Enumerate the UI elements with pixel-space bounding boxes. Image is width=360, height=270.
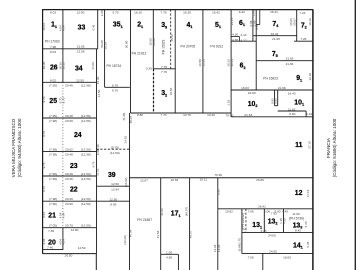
svg-text:(12.50): (12.50): [81, 197, 91, 201]
svg-text:6.90: 6.90: [217, 189, 221, 195]
svg-text:2.60: 2.60: [100, 10, 104, 16]
svg-text:11.82: 11.82: [288, 107, 296, 111]
svg-text:5.90: 5.90: [274, 209, 280, 213]
svg-text:4.10: 4.10: [240, 33, 246, 37]
svg-text:8.42: 8.42: [295, 228, 301, 232]
svg-text:18.00: 18.00: [283, 256, 291, 260]
svg-text:(7.96): (7.96): [49, 177, 57, 181]
svg-text:14.04: 14.04: [217, 244, 221, 252]
svg-text:8.02: 8.02: [50, 78, 56, 82]
svg-text:9.76: 9.76: [92, 161, 96, 167]
svg-text:10.50: 10.50: [202, 59, 206, 67]
svg-text:PH 15929: PH 15929: [161, 40, 165, 55]
svg-text:10.40: 10.40: [207, 113, 215, 117]
svg-text:(9.70): (9.70): [111, 145, 119, 149]
svg-text:15.50: 15.50: [170, 34, 174, 42]
svg-text:1.75: 1.75: [237, 238, 241, 244]
svg-text:4.04: 4.04: [62, 25, 66, 31]
svg-text:31.02: 31.02: [160, 208, 164, 216]
svg-text:4.12: 4.12: [240, 38, 246, 42]
svg-text:1.18: 1.18: [226, 100, 230, 106]
svg-text:5.35: 5.35: [306, 241, 310, 247]
svg-text:16.30: 16.30: [96, 76, 100, 84]
svg-text:24.05: 24.05: [269, 249, 277, 253]
svg-text:9.70: 9.70: [112, 10, 118, 14]
svg-text:7.50: 7.50: [248, 256, 254, 260]
svg-text:12.56: 12.56: [77, 45, 85, 49]
svg-text:17.18: 17.18: [306, 189, 310, 197]
svg-text:20.36: 20.36: [65, 172, 73, 176]
svg-text:14.52: 14.52: [123, 136, 127, 144]
svg-text:3.35: 3.35: [260, 229, 266, 233]
svg-text:8.42: 8.42: [239, 10, 245, 14]
svg-text:4.30: 4.30: [232, 33, 238, 37]
svg-text:21.63: 21.63: [244, 113, 252, 117]
svg-text:6.46: 6.46: [92, 24, 96, 30]
svg-text:20.36: 20.36: [65, 177, 73, 181]
svg-text:(Código: 94400) Altura: 1000: (Código: 94400) Altura: 1000: [17, 118, 22, 177]
svg-text:5.35: 5.35: [304, 221, 308, 227]
svg-text:12.30: 12.30: [308, 73, 312, 81]
svg-text:16.63: 16.63: [241, 86, 249, 90]
svg-text:8.03: 8.03: [50, 10, 56, 14]
svg-text:33: 33: [78, 25, 86, 32]
svg-text:8.80: 8.80: [137, 113, 143, 117]
svg-text:34: 34: [75, 65, 83, 72]
svg-text:(PH 14012): (PH 14012): [241, 213, 245, 230]
svg-text:50.90: 50.90: [125, 40, 129, 48]
svg-text:(12.56): (12.56): [81, 114, 91, 118]
svg-text:4.04: 4.04: [62, 212, 66, 218]
svg-text:25: 25: [49, 98, 57, 105]
svg-text:16.42: 16.42: [271, 32, 279, 36]
svg-text:18.30: 18.30: [42, 61, 46, 69]
svg-text:16.39: 16.39: [183, 10, 191, 14]
svg-text:PH 9212: PH 9212: [210, 45, 223, 49]
svg-text:12.50: 12.50: [111, 182, 119, 186]
svg-text:23.50: 23.50: [152, 38, 156, 46]
svg-text:(7.98): (7.98): [49, 119, 57, 123]
svg-text:11.90: 11.90: [292, 212, 300, 216]
svg-text:(26.02): (26.02): [124, 177, 128, 187]
svg-text:(7.96): (7.96): [49, 172, 57, 176]
svg-text:23.16: 23.16: [230, 17, 234, 25]
svg-text:22: 22: [70, 186, 78, 193]
svg-text:(7.98): (7.98): [49, 148, 57, 152]
svg-text:9.76: 9.76: [42, 131, 46, 137]
svg-text:7.26: 7.26: [300, 37, 306, 41]
svg-text:20.56: 20.56: [65, 202, 73, 206]
svg-text:8.96: 8.96: [110, 203, 116, 207]
svg-text:9.64: 9.64: [42, 238, 46, 244]
svg-text:(12.50): (12.50): [81, 172, 91, 176]
svg-text:20.66: 20.66: [65, 119, 73, 123]
svg-text:7.70: 7.70: [160, 113, 166, 117]
svg-text:16.41: 16.41: [258, 205, 266, 209]
svg-text:50.98: 50.98: [100, 40, 104, 48]
svg-text:26.80: 26.80: [256, 178, 264, 182]
svg-text:20.50: 20.50: [65, 254, 73, 258]
svg-text:7.06: 7.06: [248, 210, 254, 214]
svg-text:0.82: 0.82: [274, 98, 278, 104]
svg-text:20.62: 20.62: [65, 148, 73, 152]
svg-text:9.64: 9.64: [42, 212, 46, 218]
svg-text:7.76: 7.76: [160, 10, 166, 14]
svg-text:12.94: 12.94: [111, 187, 119, 191]
svg-text:12.50: 12.50: [78, 246, 86, 250]
svg-text:9.76: 9.76: [42, 186, 46, 192]
svg-text:4.38: 4.38: [232, 38, 238, 42]
svg-text:31.02: 31.02: [95, 168, 99, 176]
svg-text:4.26: 4.26: [282, 218, 286, 224]
svg-text:6.76: 6.76: [112, 83, 118, 87]
svg-text:(PH 5730): (PH 5730): [289, 217, 304, 221]
svg-text:16.42: 16.42: [212, 10, 220, 14]
svg-text:PH 21912: PH 21912: [132, 52, 147, 56]
svg-text:18.50: 18.50: [169, 87, 173, 95]
svg-text:8.03: 8.03: [50, 50, 56, 54]
svg-text:9.76: 9.76: [42, 162, 46, 168]
svg-text:7.24: 7.24: [299, 11, 305, 15]
svg-text:16.64: 16.64: [42, 23, 46, 31]
svg-text:9.70: 9.70: [62, 97, 66, 103]
svg-text:20.70: 20.70: [65, 224, 73, 228]
svg-text:12.50: 12.50: [76, 78, 84, 82]
svg-text:21.65: 21.65: [272, 37, 280, 41]
svg-text:1.10: 1.10: [306, 112, 312, 116]
svg-text:(12.50): (12.50): [81, 148, 91, 152]
svg-text:40.08: 40.08: [129, 229, 133, 237]
svg-text:16.16: 16.16: [134, 10, 142, 14]
svg-text:21: 21: [48, 213, 56, 220]
svg-text:12.50: 12.50: [77, 10, 85, 14]
svg-text:10.82: 10.82: [225, 210, 233, 214]
svg-text:1.00: 1.00: [166, 251, 172, 255]
svg-text:12.56: 12.56: [77, 50, 85, 54]
svg-text:(12.50): (12.50): [110, 151, 120, 155]
svg-text:4.40: 4.40: [282, 209, 288, 213]
svg-text:(9.84): (9.84): [237, 244, 241, 252]
svg-text:2.90: 2.90: [96, 149, 100, 155]
svg-text:45.07: 45.07: [129, 116, 133, 124]
svg-text:PH 17063: PH 17063: [45, 39, 60, 43]
svg-text:14.50: 14.50: [97, 89, 101, 97]
svg-text:21.65: 21.65: [286, 57, 294, 61]
svg-text:20.36: 20.36: [65, 197, 73, 201]
svg-text:9.70: 9.70: [42, 96, 46, 102]
svg-text:(12.56): (12.56): [81, 83, 91, 87]
svg-text:(7.05): (7.05): [49, 224, 57, 228]
svg-text:(36.20): (36.20): [123, 235, 127, 245]
svg-text:9.60: 9.60: [289, 112, 295, 116]
svg-text:39: 39: [108, 172, 116, 179]
svg-text:12: 12: [295, 190, 303, 197]
svg-text:17.00: 17.00: [91, 62, 95, 70]
svg-text:27.18: 27.18: [308, 141, 312, 149]
svg-text:11: 11: [295, 142, 302, 149]
svg-text:20.46: 20.46: [65, 114, 73, 118]
svg-text:PH 16923: PH 16923: [263, 77, 278, 81]
svg-text:FRANCIA: FRANCIA: [326, 137, 331, 158]
svg-text:(12.56): (12.56): [81, 202, 91, 206]
svg-text:(7.98): (7.98): [49, 197, 57, 201]
svg-text:16.30: 16.30: [104, 42, 108, 50]
svg-text:(7.98): (7.98): [49, 153, 57, 157]
svg-text:7.76: 7.76: [161, 65, 167, 69]
svg-text:12.50: 12.50: [109, 197, 117, 201]
svg-text:30.14: 30.14: [230, 59, 234, 67]
svg-text:5.06: 5.06: [264, 209, 270, 213]
svg-text:(12.56): (12.56): [81, 119, 91, 123]
svg-text:16.43: 16.43: [288, 91, 296, 95]
svg-text:7.65: 7.65: [48, 229, 54, 233]
svg-text:10.63: 10.63: [171, 178, 179, 182]
svg-text:PH 21587: PH 21587: [137, 218, 152, 222]
svg-text:10.76: 10.76: [183, 113, 191, 117]
svg-text:70.90: 70.90: [226, 113, 234, 117]
svg-text:18.12: 18.12: [62, 62, 66, 70]
svg-text:(45.07): (45.07): [185, 207, 189, 217]
svg-text:20.48: 20.48: [65, 153, 73, 157]
svg-text:12.90: 12.90: [71, 228, 79, 232]
svg-text:12.07: 12.07: [140, 179, 148, 183]
svg-text:24.05: 24.05: [268, 234, 276, 238]
svg-text:43.58: 43.58: [156, 230, 160, 238]
svg-text:6.76: 6.76: [112, 89, 118, 93]
svg-text:0.50: 0.50: [255, 24, 259, 30]
svg-text:(Código: 51650) Altura: 1000: (Código: 51650) Altura: 1000: [332, 118, 337, 177]
svg-text:21.66: 21.66: [286, 62, 294, 66]
svg-text:1.00: 1.00: [251, 10, 255, 16]
svg-text:(7.95): (7.95): [49, 114, 57, 118]
svg-text:7.98: 7.98: [50, 45, 56, 49]
svg-text:(12.56): (12.56): [81, 177, 91, 181]
svg-text:14.04: 14.04: [213, 244, 217, 252]
svg-text:VERA MUJICA FRANCISCO: VERA MUJICA FRANCISCO: [11, 118, 16, 177]
svg-text:45.07: 45.07: [188, 230, 192, 238]
svg-text:21.66: 21.66: [278, 86, 286, 90]
svg-text:20.46: 20.46: [65, 83, 73, 87]
svg-text:10.30: 10.30: [308, 18, 312, 26]
svg-text:4.98: 4.98: [166, 255, 172, 259]
svg-text:(12.50): (12.50): [81, 224, 91, 228]
svg-text:4.04: 4.04: [62, 239, 66, 245]
svg-text:16.41: 16.41: [270, 10, 278, 14]
svg-text:(12.56): (12.56): [81, 153, 91, 157]
svg-text:24: 24: [74, 132, 82, 139]
svg-text:0.35: 0.35: [146, 67, 152, 71]
svg-text:(5.38): (5.38): [122, 113, 126, 121]
svg-text:23: 23: [70, 163, 78, 170]
svg-text:7.40: 7.40: [47, 246, 53, 250]
svg-text:(7.95): (7.95): [49, 83, 57, 87]
svg-text:PH 20705: PH 20705: [180, 45, 195, 49]
svg-text:26: 26: [50, 65, 58, 72]
svg-text:16.11: 16.11: [200, 178, 208, 182]
svg-text:20.07: 20.07: [292, 18, 296, 26]
svg-text:70.90: 70.90: [214, 173, 222, 177]
svg-text:7.76: 7.76: [161, 70, 167, 74]
svg-text:(7.96): (7.96): [49, 202, 57, 206]
svg-text:16.80: 16.80: [248, 91, 256, 95]
svg-text:PH 18734: PH 18734: [106, 64, 121, 68]
